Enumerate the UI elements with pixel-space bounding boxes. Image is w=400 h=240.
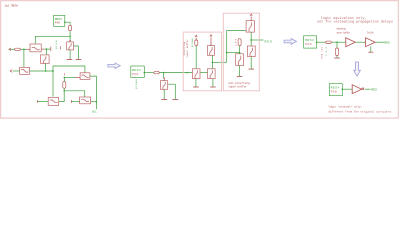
- svg-text:super buffer: super buffer: [228, 85, 247, 89]
- svg-text:RES: RES: [384, 41, 390, 45]
- svg-text:premq: premq: [191, 38, 194, 47]
- svg-text:super buffer: super buffer: [336, 32, 350, 35]
- svg-text:74128: 74128: [367, 32, 374, 35]
- svg-text:inverting: inverting: [336, 27, 346, 30]
- svg-text:PAD: PAD: [305, 42, 311, 46]
- svg-text:logic >concept< only,: logic >concept< only,: [328, 105, 362, 109]
- svg-text:premq: premq: [135, 79, 138, 89]
- svg-text:PAD: PAD: [55, 21, 60, 25]
- svg-text:10k: 10k: [234, 38, 237, 46]
- svg-text:1a) RES#: 1a) RES#: [4, 4, 18, 8]
- svg-text:RES: RES: [371, 88, 377, 92]
- svg-text:different from the original ci: different from the original circuitry: [328, 109, 391, 113]
- svg-text:PAD: PAD: [331, 89, 337, 93]
- svg-text:esd res: esd res: [321, 46, 324, 58]
- svg-text:GCL: GCL: [92, 111, 97, 114]
- svg-text:res: res: [325, 47, 328, 56]
- svg-text:RES: RES: [265, 39, 273, 43]
- svg-text:not for estimating propagation: not for estimating propagation delays: [317, 20, 393, 25]
- svg-text:non_inverting: non_inverting: [228, 81, 250, 85]
- svg-text:super buffer: super buffer: [186, 39, 189, 58]
- svg-text:PAD: PAD: [132, 72, 138, 76]
- svg-text:prem: prem: [55, 40, 58, 49]
